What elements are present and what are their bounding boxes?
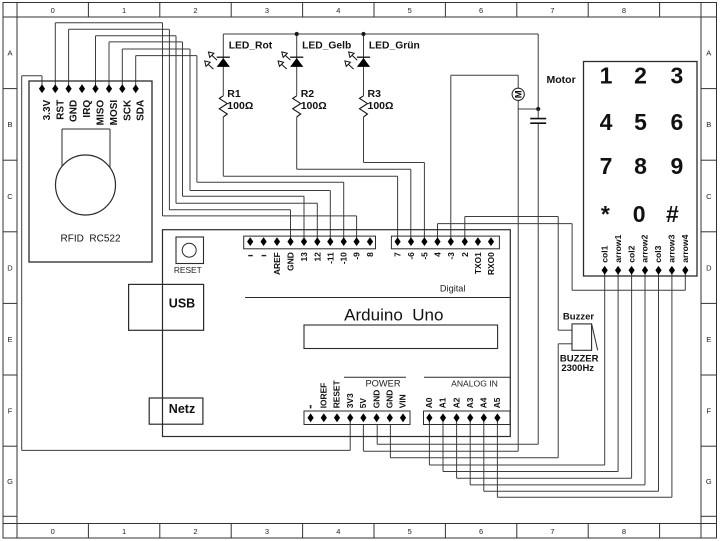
svg-text:A4: A4 (479, 397, 489, 408)
pin A3 (analog) (467, 413, 473, 422)
svg-text:arrow3: arrow3 (667, 234, 677, 262)
svg-text:100Ω: 100Ω (368, 100, 394, 112)
svg-text:2: 2 (634, 63, 647, 89)
svg-text:C: C (7, 192, 13, 201)
svg-text:-6: -6 (406, 252, 416, 260)
svg-text:3V3: 3V3 (345, 393, 355, 408)
svg-text:R1: R1 (227, 88, 241, 100)
svg-text:RESET: RESET (332, 379, 342, 408)
svg-text:USB: USB (169, 296, 195, 310)
wire: keypad arrow2 to A3 (644, 270, 646, 485)
node: rail junction LED_Gelb (295, 32, 299, 36)
svg-text:LED_Grün: LED_Grün (369, 41, 420, 52)
svg-text:7: 7 (550, 6, 554, 15)
pin GND (digital left) (287, 237, 293, 246)
svg-text:D: D (7, 263, 13, 272)
svg-text:SCK: SCK (122, 99, 133, 121)
wire R1 to pin 7 (223, 175, 397, 177)
svg-text:col1: col1 (599, 245, 609, 262)
svg-text:GND: GND (286, 252, 296, 271)
pin 7 (digital right) (395, 237, 401, 246)
svg-text:5: 5 (634, 109, 647, 135)
svg-text:VIN: VIN (398, 394, 408, 408)
RFID pin MOSI (106, 84, 112, 93)
node: capacitor junction (536, 107, 540, 111)
svg-text:1: 1 (122, 527, 126, 536)
RFID pin GND (66, 84, 72, 93)
ANALOG IN bracket (424, 376, 510, 378)
wire: keypad arrow1 to A1 (617, 270, 619, 471)
wire: RFID SCK to pin -11 (121, 49, 123, 85)
svg-text:0: 0 (51, 527, 55, 536)
pin A5 (analog) (494, 413, 500, 422)
board separator line (245, 297, 510, 299)
LED arrows (352, 55, 357, 60)
svg-text:-5: -5 (419, 252, 429, 260)
svg-text:RXO0: RXO0 (486, 252, 496, 275)
svg-text:GND: GND (371, 390, 381, 409)
pin VIN (power) (400, 413, 406, 422)
svg-text:12: 12 (312, 252, 322, 262)
pin TXO1 (digital right) (475, 237, 481, 246)
pin A2 (analog) (454, 413, 460, 422)
svg-text:RESET: RESET (174, 265, 202, 275)
svg-text:2300Hz: 2300Hz (561, 363, 594, 374)
svg-text:-11: -11 (325, 252, 335, 264)
wire: keypad col2 to A2 (631, 270, 633, 478)
svg-text:SDA: SDA (136, 100, 147, 121)
POWER bracket (344, 376, 406, 378)
svg-text:7: 7 (393, 252, 403, 257)
RFID antenna coil circle (56, 155, 116, 215)
wire: RFID 3.3V loop to 3V3 (41, 76, 43, 85)
svg-text:9: 9 (671, 153, 684, 179)
svg-text:A3: A3 (465, 397, 475, 408)
svg-text:R2: R2 (301, 88, 315, 100)
svg-text:3: 3 (265, 6, 269, 15)
svg-text:ANALOG IN: ANALOG IN (451, 379, 498, 389)
svg-text:5V: 5V (358, 398, 368, 409)
svg-text:IRQ: IRQ (82, 100, 93, 118)
svg-text:1: 1 (600, 63, 613, 89)
pin 4 (digital right) (434, 237, 440, 246)
wire: buzzer lower to GND (558, 343, 572, 345)
RFID pin RST (52, 84, 58, 93)
keypad pin arrow1 (615, 266, 621, 275)
svg-text:4: 4 (336, 527, 340, 536)
svg-text:E: E (7, 335, 12, 344)
board inner rectangle (304, 325, 498, 349)
svg-text:GND: GND (385, 390, 395, 409)
USB connector box (129, 284, 204, 330)
RFID antenna rectangle (62, 128, 110, 130)
wire: keypad col1 to A0 (604, 270, 606, 465)
RFID pin SDA (133, 84, 139, 93)
svg-text:6: 6 (671, 109, 684, 135)
Arduino Uno board outline (163, 230, 511, 437)
svg-text:-9: -9 (352, 252, 362, 260)
svg-text:#: # (666, 201, 679, 227)
wire R3 to pin -5 (364, 162, 425, 164)
keypad pin arrow4 (682, 266, 688, 275)
keypad pin arrow3 (669, 266, 675, 275)
svg-text:LED_Rot: LED_Rot (229, 41, 273, 52)
LED LED_Gr&#252;n (357, 56, 370, 58)
pin 12 (digital left) (314, 237, 320, 246)
svg-text:5: 5 (408, 527, 412, 536)
RFID RC522 module (29, 81, 152, 262)
svg-text:F: F (8, 406, 13, 415)
ANALOG IN header (424, 411, 511, 425)
pin - (digital left) (247, 237, 253, 246)
svg-text:RFID RC522: RFID RC522 (60, 233, 120, 244)
svg-text:100Ω: 100Ω (227, 100, 253, 112)
svg-text:E: E (706, 335, 711, 344)
svg-text:col3: col3 (653, 245, 663, 262)
wire: RFID SDA to pin -10 (135, 56, 137, 85)
pin 2 (digital right) (462, 237, 468, 246)
pin - (digital left) (261, 237, 267, 246)
svg-text:arrow1: arrow1 (613, 234, 623, 262)
RFID pin IRQ (79, 84, 85, 93)
digital header left (244, 236, 376, 249)
capacitor C1 (530, 118, 546, 120)
svg-text:G: G (7, 477, 13, 486)
pin A1 (analog) (440, 413, 446, 422)
svg-text:Netz: Netz (169, 402, 195, 416)
wire: keypad arrow3 to A5 (671, 270, 673, 497)
wire: LED top rail (223, 33, 538, 35)
wire: keypad arrow4 to pin 4 (437, 224, 439, 241)
svg-text:8: 8 (622, 6, 626, 15)
RFID pin SCK (119, 84, 125, 93)
svg-text:Arduino Uno: Arduino Uno (344, 305, 443, 324)
svg-text:-3: -3 (446, 252, 456, 260)
node: rail junction LED_Gruen (361, 32, 365, 36)
svg-text:B: B (7, 120, 12, 129)
wire: motor feed from pin -3 (450, 75, 452, 241)
pin AREF (digital left) (274, 237, 280, 246)
svg-text:2: 2 (193, 527, 197, 536)
resistor R1 100 ohm (219, 96, 227, 117)
svg-text:A0: A0 (424, 397, 434, 408)
keypad pin col3 (655, 266, 661, 275)
pin A0 (analog) (426, 413, 432, 422)
svg-text:M: M (514, 90, 525, 98)
svg-text:*: * (601, 201, 610, 227)
wire: keypad col3 to A4 (658, 270, 660, 491)
svg-text:2: 2 (193, 6, 197, 15)
pin -3 (digital right) (448, 237, 454, 246)
wire: LED_Rot column (222, 34, 224, 96)
svg-text:2: 2 (460, 252, 470, 257)
svg-text:F: F (707, 406, 712, 415)
pin -10 (digital left) (341, 237, 347, 246)
svg-text:-10: -10 (339, 252, 349, 264)
svg-text:3: 3 (671, 63, 684, 89)
pin 3V3 (power) (347, 413, 353, 422)
pin A4 (analog) (481, 413, 487, 422)
svg-text:TXO1: TXO1 (473, 252, 483, 274)
svg-text:col2: col2 (626, 245, 636, 262)
svg-text:IOREF: IOREF (319, 383, 329, 409)
pin 8 (digital left) (367, 237, 373, 246)
LED arrows (212, 55, 217, 60)
wire: motor bottom to 5V (517, 100, 519, 451)
RFID pin MISO (92, 84, 98, 93)
svg-text:4: 4 (600, 109, 613, 135)
svg-text:A1: A1 (438, 397, 448, 408)
svg-text:4: 4 (336, 6, 340, 15)
svg-text:A: A (7, 49, 12, 58)
svg-text:A: A (706, 49, 711, 58)
svg-text:LED_Gelb: LED_Gelb (302, 41, 351, 52)
pin - (power) (308, 413, 314, 422)
svg-text:G: G (706, 477, 712, 486)
svg-text:6: 6 (479, 527, 483, 536)
svg-text:MISO: MISO (96, 100, 107, 126)
svg-text:13: 13 (299, 252, 309, 262)
LED LED_Gelb (290, 56, 303, 58)
svg-text:arrow4: arrow4 (680, 234, 690, 262)
svg-text:0: 0 (51, 6, 55, 15)
svg-text:RST: RST (55, 100, 66, 120)
svg-text:AREF: AREF (272, 252, 282, 275)
RESET button (176, 237, 204, 264)
pin GND (power) (387, 413, 393, 422)
svg-text:arrow2: arrow2 (640, 234, 650, 262)
svg-text:1: 1 (122, 6, 126, 15)
RFID pin 3.3V (39, 84, 45, 93)
svg-text:C: C (706, 192, 712, 201)
svg-text:8: 8 (365, 252, 375, 257)
svg-text:MOSI: MOSI (109, 100, 120, 126)
wire R2 to pin -6 (297, 168, 411, 170)
keypad pin arrow2 (642, 266, 648, 275)
wire: LED_Gelb column (296, 34, 298, 96)
svg-text:100Ω: 100Ω (301, 100, 327, 112)
svg-text:B: B (706, 120, 711, 129)
LED arrows (285, 55, 290, 60)
resistor R3 100 ohm (360, 96, 368, 117)
svg-text:8: 8 (622, 527, 626, 536)
svg-text:Buzzer: Buzzer (563, 311, 594, 322)
resistor R2 100 ohm (293, 96, 301, 117)
svg-text:7: 7 (550, 527, 554, 536)
svg-text:GND: GND (69, 100, 80, 122)
svg-text:7: 7 (600, 153, 613, 179)
svg-text:POWER: POWER (365, 379, 400, 389)
wire: RFID MOSI to pin 13 (108, 42, 110, 85)
svg-text:8: 8 (634, 153, 647, 179)
svg-text:3: 3 (265, 527, 269, 536)
svg-text:4: 4 (433, 252, 443, 257)
wire: RFID GND to Arduino GND (68, 29, 70, 85)
pin IOREF (power) (321, 413, 327, 422)
Netz (power) box (149, 398, 203, 424)
wire: buzzer upper to pin 2 (464, 217, 466, 242)
svg-text:Motor: Motor (547, 74, 576, 86)
svg-text:R3: R3 (368, 88, 382, 100)
wire: LED_Gruen column (363, 34, 365, 96)
keypad pin col2 (629, 266, 635, 275)
wire: motor-capacitor branch (518, 108, 539, 110)
svg-text:A5: A5 (492, 397, 502, 408)
wire: RFID MISO to pin 12 (95, 36, 97, 85)
pin RXO0 (digital right) (488, 237, 494, 246)
svg-text:5: 5 (408, 6, 412, 15)
digital header right (391, 236, 499, 249)
pin -5 (digital right) (421, 237, 427, 246)
keypad pin col1 (602, 266, 608, 275)
pin -11 (digital left) (327, 237, 333, 246)
LED LED_Rot (217, 56, 230, 58)
pin RESET (power) (334, 413, 340, 422)
svg-text:D: D (706, 263, 712, 272)
svg-text:6: 6 (479, 6, 483, 15)
wire: capacitor bottom to GND (537, 123, 539, 444)
svg-text:A2: A2 (451, 397, 461, 408)
wire: RFID RST to pin -9 (54, 23, 56, 85)
wire: capacitor top lead (537, 109, 539, 119)
pin -9 (digital left) (354, 237, 360, 246)
keypad 3x4 (584, 62, 698, 277)
pin GND (power) (374, 413, 380, 422)
svg-text:3.3V: 3.3V (42, 99, 53, 120)
pin -6 (digital right) (408, 237, 414, 246)
svg-text:Digital: Digital (440, 284, 466, 294)
POWER header (304, 411, 410, 425)
pin 13 (digital left) (301, 237, 307, 246)
buzzer symbol (572, 324, 592, 350)
svg-text:0: 0 (633, 201, 646, 227)
pin 5V (power) (360, 413, 366, 422)
